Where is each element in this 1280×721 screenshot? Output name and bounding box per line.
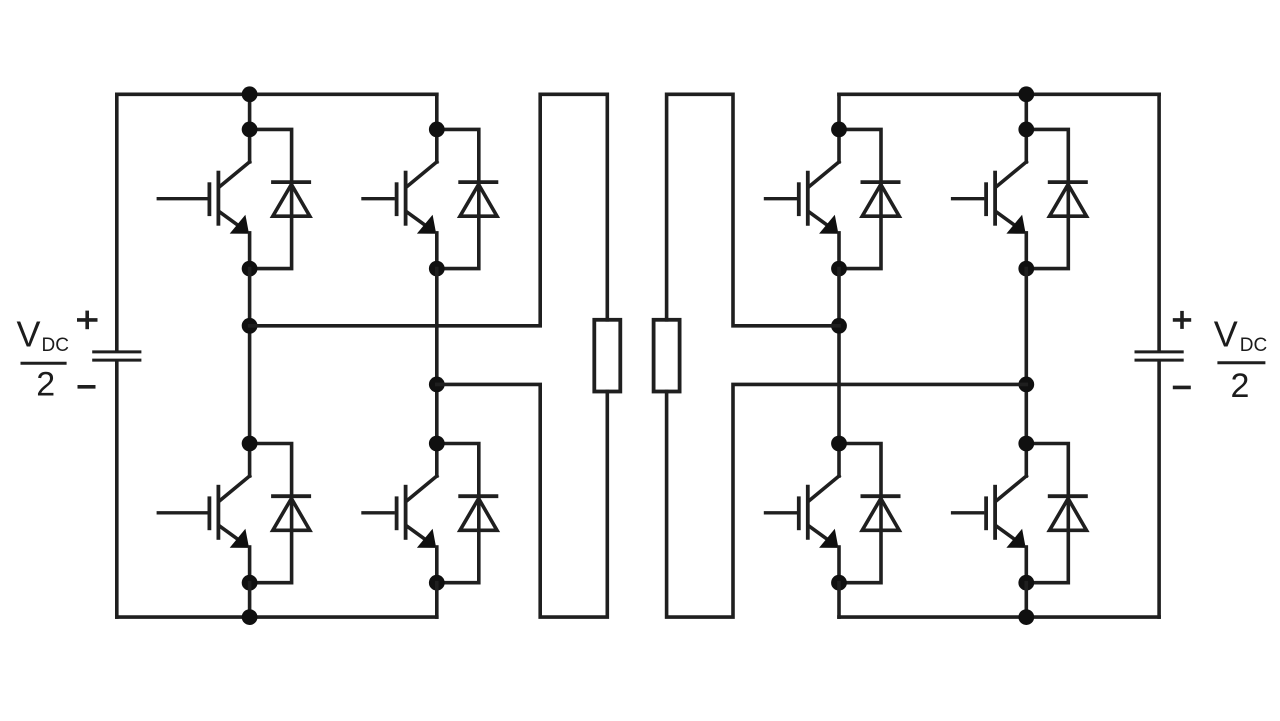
wire collector lead S4 (435, 444, 439, 477)
diode D1 (antiparallel) (271, 182, 311, 216)
node S8 top (1018, 436, 1034, 452)
wire output C to R2 (up-and-over) (667, 94, 839, 325)
wire DC bus left upper (115, 94, 119, 351)
wire gate lead S3 (361, 197, 395, 200)
transistor S2 (IGBT) (209, 476, 249, 583)
wire leg C top (837, 94, 841, 129)
svg-text:2: 2 (1231, 367, 1250, 405)
node S1 top (242, 121, 258, 137)
wire bottom rail right bridge (839, 615, 1159, 619)
diode D4 (antiparallel) (458, 496, 498, 530)
wire leg A bottom (248, 583, 252, 617)
transistor S1 (IGBT) (209, 162, 249, 269)
wire gate lead S5 (764, 197, 797, 200)
wire D2 branch (250, 444, 292, 583)
node S6 bottom (831, 575, 847, 591)
diode D5 (antiparallel) (861, 182, 901, 216)
node S3 top (429, 121, 445, 137)
node S4 bottom (429, 575, 445, 591)
svg-text:DC: DC (1240, 335, 1267, 356)
node output D (1018, 377, 1034, 393)
transistor S8 (IGBT) (986, 476, 1026, 583)
wire DC bus right lower (1157, 361, 1161, 617)
svg-text:V: V (1214, 314, 1238, 355)
wire collector lead S2 (248, 444, 252, 477)
wire D5 branch (839, 129, 881, 268)
wire leg C middle (837, 269, 841, 444)
wire leg D top (1025, 94, 1029, 129)
wire R1 to output B (down-and-under) (437, 384, 608, 617)
label C1 plus (77, 311, 98, 330)
node S2 top (242, 436, 258, 452)
wire leg C bottom (837, 583, 841, 617)
wire top rail left bridge (117, 93, 437, 97)
wire DC bus right upper (1157, 94, 1161, 351)
wire DC bus left lower (115, 361, 119, 617)
resistor R2 (654, 320, 680, 392)
node S7 top (1018, 121, 1034, 137)
wire R2 to output D (down-and-under) (667, 384, 1027, 617)
wire gate lead S6 (764, 511, 797, 514)
node output C (831, 318, 847, 334)
node leg A / bottom rail (242, 609, 258, 625)
node S6 top (831, 436, 847, 452)
wire gate lead S7 (951, 197, 985, 200)
wire collector lead S5 (837, 129, 841, 162)
node S8 bottom (1018, 575, 1034, 591)
wire D3 branch (437, 129, 479, 268)
wire leg A top (248, 94, 252, 129)
capacitor C2 (VDC/2) (1135, 352, 1184, 360)
wire gate lead S4 (361, 511, 395, 514)
wire leg B bottom (435, 583, 439, 617)
node S4 top (429, 436, 445, 452)
svg-text:V: V (17, 314, 41, 355)
label VDC/2 left (17, 314, 69, 404)
node leg A / top rail (242, 86, 258, 102)
diode D8 (antiparallel) (1048, 496, 1088, 530)
wire collector lead S8 (1025, 444, 1029, 477)
wire collector lead S7 (1025, 129, 1029, 162)
label C2 minus (1173, 386, 1191, 390)
wire leg D bottom (1025, 583, 1029, 617)
transistor S4 (IGBT) (397, 476, 437, 583)
wire output A to R1 (up-and-over) (250, 94, 608, 325)
wire leg B middle (435, 269, 439, 444)
label C1 minus (78, 385, 96, 389)
diode D2 (antiparallel) (271, 496, 311, 530)
wire bottom rail left bridge (117, 615, 437, 619)
transistor S5 (IGBT) (799, 162, 839, 269)
wire leg D middle (1025, 269, 1029, 444)
wire top rail right bridge (839, 93, 1159, 97)
node S5 bottom (831, 261, 847, 277)
diode D7 (antiparallel) (1048, 182, 1088, 216)
node S3 bottom (429, 261, 445, 277)
wire D4 branch (437, 444, 479, 583)
node output B (429, 377, 445, 393)
node S1 bottom (242, 261, 258, 277)
node output A (242, 318, 258, 334)
node leg D / top rail (1018, 86, 1034, 102)
node S7 bottom (1018, 261, 1034, 277)
svg-text:2: 2 (36, 366, 55, 404)
wire collector lead S6 (837, 444, 841, 477)
node S2 bottom (242, 575, 258, 591)
diode D3 (antiparallel) (458, 182, 498, 216)
label C2 plus (1173, 311, 1191, 329)
transistor S3 (IGBT) (397, 162, 437, 269)
node leg D / bottom rail (1018, 609, 1034, 625)
wire gate lead S8 (951, 511, 985, 514)
wire collector lead S1 (248, 129, 252, 162)
svg-text:DC: DC (42, 335, 69, 356)
capacitor C1 (VDC/2) (92, 352, 141, 360)
wire leg B top (435, 94, 439, 129)
wire D6 branch (839, 444, 881, 583)
wire D1 branch (250, 129, 292, 268)
diode D6 (antiparallel) (861, 496, 901, 530)
wire gate lead S2 (157, 511, 208, 514)
wire gate lead S1 (157, 197, 208, 200)
resistor R1 (594, 320, 620, 392)
wire D8 branch (1026, 444, 1068, 583)
transistor S6 (IGBT) (799, 476, 839, 583)
wire collector lead S3 (435, 129, 439, 162)
wire D7 branch (1026, 129, 1068, 268)
label VDC/2 right (1214, 314, 1267, 405)
transistor S7 (IGBT) (986, 162, 1026, 269)
node S5 top (831, 121, 847, 137)
wire leg A middle (248, 269, 252, 444)
